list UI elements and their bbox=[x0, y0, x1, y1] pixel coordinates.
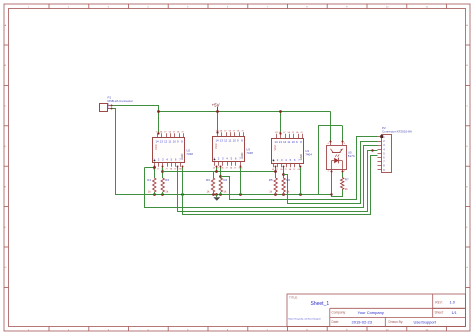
node IC VCC pin junctions bbox=[157, 131, 281, 134]
svg-text:RNB-2A Connector: RNB-2A Connector bbox=[108, 99, 134, 103]
svg-text:1/1: 1/1 bbox=[452, 311, 457, 315]
wire U3 pin3/R4 jog to bus L1 bbox=[220, 167, 222, 179]
wire U3 pin7 to GND bus bbox=[240, 166, 242, 194]
svg-text:R7: R7 bbox=[345, 178, 349, 182]
wire bus drop to U2 VCC bbox=[158, 111, 160, 133]
IC U2 7438 bbox=[153, 131, 194, 171]
svg-text:R2: R2 bbox=[165, 178, 169, 182]
svg-text:VCC: VCC bbox=[214, 143, 218, 149]
IC U3 7438 bbox=[213, 130, 254, 170]
wire bus end down to U5 pin4 bbox=[330, 111, 332, 141]
wire bus drop to U3 VCC bbox=[217, 111, 219, 132]
ground bbox=[213, 195, 220, 201]
svg-text:R3: R3 bbox=[206, 178, 210, 182]
svg-text:+5V: +5V bbox=[212, 103, 220, 108]
svg-text:14: 14 bbox=[216, 139, 220, 143]
svg-text:Sheet:: Sheet: bbox=[435, 311, 444, 315]
node U2 pin1 junction bbox=[153, 166, 156, 169]
svg-text:Company:: Company: bbox=[332, 311, 347, 315]
svg-text:GND: GND bbox=[240, 153, 244, 159]
svg-text:TITLE:: TITLE: bbox=[289, 295, 298, 299]
svg-text:Sheet_1: Sheet_1 bbox=[311, 301, 330, 307]
svg-text:2019-02-23: 2019-02-23 bbox=[352, 320, 373, 325]
svg-text:R6: R6 bbox=[286, 178, 290, 182]
svg-text:13: 13 bbox=[279, 140, 283, 144]
wire R7 top to U5 pin2 bbox=[342, 172, 344, 177]
svg-text:12: 12 bbox=[283, 140, 287, 144]
wire bus drop to U4 VCC bbox=[280, 111, 282, 133]
svg-text:13: 13 bbox=[160, 140, 164, 144]
wire U4 pin1 to R5 / mid net end bbox=[275, 167, 277, 178]
svg-text:Your Company: Your Company bbox=[358, 310, 384, 315]
wire U4 pin3/R6 jog to bus L4 bbox=[283, 167, 285, 179]
svg-text:REV:: REV: bbox=[435, 300, 442, 304]
wire U2 pin7 to GND bus and L5 bbox=[183, 156, 378, 215]
svg-text:R4: R4 bbox=[223, 178, 227, 182]
connector P1 bbox=[100, 95, 134, 111]
svg-text:G: G bbox=[466, 267, 468, 269]
svg-text:13: 13 bbox=[220, 139, 224, 143]
svg-text:GND: GND bbox=[299, 154, 303, 160]
wire U4 pin7 to GND bus bbox=[300, 167, 302, 195]
svg-text:7404: 7404 bbox=[305, 153, 312, 157]
wire U3 pin2 drop to mid net bbox=[216, 166, 218, 171]
svg-text:R5: R5 bbox=[269, 178, 273, 182]
svg-text:GND: GND bbox=[180, 154, 184, 160]
svg-text:10: 10 bbox=[233, 139, 237, 143]
svg-text:11: 11 bbox=[287, 140, 290, 144]
wire P1 pin2 down-left rail bbox=[112, 109, 332, 195]
connector P2 bbox=[378, 126, 412, 173]
svg-text:12: 12 bbox=[164, 140, 168, 144]
svg-text:11: 11 bbox=[228, 139, 231, 143]
svg-text:UserSupport: UserSupport bbox=[414, 320, 437, 325]
svg-text:7438: 7438 bbox=[246, 151, 253, 155]
svg-text:VCC: VCC bbox=[154, 144, 158, 150]
resistor R4 bbox=[219, 178, 227, 194]
resistor R3 bbox=[206, 178, 215, 194]
node U5 pin junctions bbox=[330, 141, 344, 173]
junction dots on +5V bus bbox=[157, 110, 282, 113]
wire left rail to bus L2 bbox=[145, 146, 378, 208]
wire U5 pin1 down to R7 bottom rail bbox=[332, 173, 343, 197]
node R2 top junction bbox=[161, 170, 164, 173]
junction dots on GND bus bbox=[153, 193, 302, 196]
node bus end junction bbox=[330, 193, 332, 195]
svg-text:G: G bbox=[5, 267, 7, 269]
resistor R5 bbox=[269, 178, 278, 194]
svg-text:https://easyeda.com/UserSuppor: https://easyeda.com/UserSupport bbox=[288, 317, 321, 320]
svg-text:14: 14 bbox=[275, 140, 279, 144]
svg-text:Date:: Date: bbox=[332, 320, 340, 324]
resistor R2 bbox=[161, 178, 169, 194]
svg-text:10: 10 bbox=[292, 140, 296, 144]
wire U2 pin1 to R1 and left rail bbox=[145, 167, 155, 169]
wire mid row net bbox=[163, 171, 276, 173]
svg-text:GND: GND bbox=[298, 169, 303, 171]
svg-text:R1: R1 bbox=[147, 178, 151, 182]
svg-text:12: 12 bbox=[224, 139, 228, 143]
wire R3 top to mid net bbox=[213, 171, 215, 178]
svg-text:Drawn By:: Drawn By: bbox=[389, 320, 404, 324]
svg-text:VCC: VCC bbox=[273, 145, 277, 151]
wire U2 pin6 to bus L3 bbox=[178, 151, 378, 212]
node mid net junction at U3 bbox=[215, 170, 218, 173]
svg-text:14: 14 bbox=[156, 140, 160, 144]
wire U2 pin3 to R2 bbox=[162, 167, 164, 178]
svg-text:1.0: 1.0 bbox=[450, 300, 456, 305]
wire P1 pin1 to bus corner bbox=[112, 106, 159, 112]
svg-text:Connector KF2510-8A: Connector KF2510-8A bbox=[382, 130, 412, 134]
resistor R6 bbox=[282, 178, 290, 194]
wire U5 pin3 loop to pin1 and R7 bbox=[319, 126, 343, 195]
node P1 pin junctions bbox=[111, 105, 113, 110]
node P2 pin4 junction bbox=[371, 149, 373, 151]
resistor R1 bbox=[147, 178, 156, 194]
svg-text:817C: 817C bbox=[348, 154, 356, 158]
title block bbox=[287, 294, 466, 327]
svg-text:11: 11 bbox=[168, 140, 171, 144]
power +5V bbox=[212, 103, 220, 112]
svg-text:10: 10 bbox=[173, 140, 177, 144]
IC U4 7404 bbox=[272, 131, 313, 171]
svg-text:7438: 7438 bbox=[186, 152, 193, 156]
optocoupler U5 817C bbox=[327, 141, 356, 173]
wire +5V top bus bbox=[159, 111, 331, 113]
resistor R7 bbox=[341, 178, 349, 192]
node IC bottom pin junctions bbox=[154, 166, 302, 168]
